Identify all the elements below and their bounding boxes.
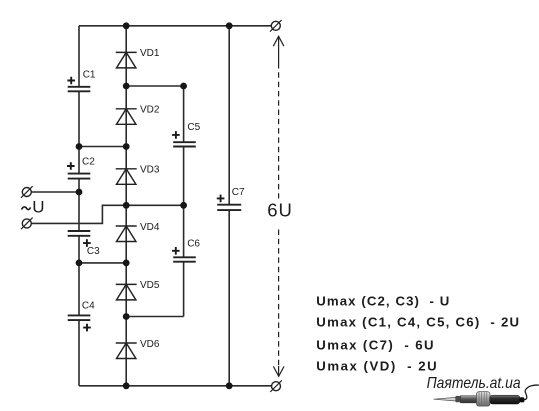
node input top bbox=[76, 189, 83, 196]
plus C2 bbox=[67, 162, 75, 170]
label 6U output bbox=[263, 199, 295, 220]
wire C7 column bbox=[228, 26, 230, 386]
svg-text:C1: C1 bbox=[83, 70, 96, 81]
plus C6 bbox=[172, 247, 180, 255]
arrow up bbox=[273, 36, 284, 46]
handle bbox=[490, 395, 520, 404]
capacitor C4 bbox=[68, 315, 91, 320]
tip holder bbox=[455, 396, 461, 402]
wire diode column bbox=[125, 26, 127, 386]
node VD1-VD2 bbox=[123, 83, 130, 90]
svg-text:C2: C2 bbox=[82, 156, 95, 167]
node C3-C4 bbox=[76, 260, 83, 267]
wire top bus bbox=[79, 25, 271, 27]
svg-text:Umax (C7) - 6U: Umax (C7) - 6U bbox=[316, 338, 435, 353]
capacitor C1 bbox=[68, 87, 91, 92]
wire VD5-VD6 to C6 bottom bbox=[126, 316, 183, 318]
svg-text:Umax (C2, C3) - U: Umax (C2, C3) - U bbox=[316, 294, 450, 309]
svg-text:C6: C6 bbox=[187, 239, 200, 250]
diode VD1 bbox=[116, 52, 137, 68]
wire VD3-VD4 to C6 bbox=[126, 204, 183, 206]
wire mid column C5 C6 bbox=[183, 86, 185, 317]
capacitor C5 bbox=[173, 142, 196, 146]
dimension line 6U dashed bbox=[273, 36, 284, 376]
svg-text:6U: 6U bbox=[267, 199, 292, 220]
node VD5-VD6 bbox=[123, 313, 130, 320]
capacitor C2 bbox=[68, 174, 91, 179]
capacitor C7 bbox=[217, 205, 241, 210]
terminal output bottom bbox=[270, 380, 282, 392]
node C2 top bbox=[76, 143, 83, 150]
node VD2-VD3 bbox=[123, 143, 130, 150]
svg-text:VD3: VD3 bbox=[140, 165, 160, 176]
node top bus / C7 bbox=[226, 22, 233, 29]
terminal output top bbox=[270, 20, 282, 32]
plus C7 bbox=[217, 195, 225, 203]
tip bbox=[434, 397, 456, 401]
capacitor C6 bbox=[173, 257, 196, 261]
watermark soldering iron bbox=[434, 385, 539, 406]
wire bottom bus bbox=[79, 385, 271, 387]
plus C3 bbox=[83, 239, 91, 247]
barrel bbox=[461, 396, 478, 403]
svg-text:VD4: VD4 bbox=[140, 222, 160, 233]
svg-text:U: U bbox=[32, 198, 44, 217]
node C5 top bbox=[180, 83, 187, 90]
terminal input bottom bbox=[21, 218, 33, 230]
capacitor C3 bbox=[68, 231, 91, 236]
diode VD6 bbox=[116, 343, 137, 359]
svg-text:Umax (VD) - 2U: Umax (VD) - 2U bbox=[316, 358, 438, 373]
node VD3-VD4 bbox=[123, 202, 130, 209]
svg-text:Паятель.at.ua: Паятель.at.ua bbox=[427, 375, 521, 392]
cord bbox=[524, 385, 539, 400]
wire VD1-VD2 to C5 bbox=[126, 85, 183, 87]
wire input bottom terminal stepped bbox=[31, 205, 126, 223]
svg-text:VD5: VD5 bbox=[140, 280, 160, 291]
wire VD4-VD5 to C3 bbox=[79, 262, 126, 264]
node bottom bus / C7 bbox=[226, 382, 233, 389]
label ~U input bbox=[22, 207, 31, 210]
node VD4-VD5 bbox=[123, 260, 130, 267]
plus C4 bbox=[83, 324, 91, 332]
svg-text:C7: C7 bbox=[232, 187, 245, 198]
diode VD3 bbox=[116, 169, 137, 185]
svg-text:C4: C4 bbox=[82, 301, 95, 312]
handle nub bbox=[519, 397, 524, 402]
svg-text:Umax (C1, C4, C5, C6) - 2U: Umax (C1, C4, C5, C6) - 2U bbox=[316, 315, 520, 330]
svg-text:C5: C5 bbox=[187, 122, 200, 133]
svg-text:VD2: VD2 bbox=[140, 105, 160, 116]
diode VD2 bbox=[116, 109, 137, 125]
node bottom bus / diode column bbox=[123, 382, 130, 389]
svg-text:VD1: VD1 bbox=[140, 48, 160, 59]
wire VD2-VD3 to C2 bbox=[79, 146, 126, 148]
wire left column bbox=[78, 26, 80, 386]
plus C5 bbox=[172, 131, 180, 139]
terminal input top bbox=[21, 186, 33, 198]
arrow down bbox=[273, 366, 284, 376]
svg-text:VD6: VD6 bbox=[140, 339, 160, 350]
collar ribbed bbox=[476, 392, 490, 406]
node C5-C6 bbox=[180, 202, 187, 209]
diode VD5 bbox=[116, 284, 137, 300]
plus C1 bbox=[67, 77, 75, 85]
wire input top terminal bbox=[31, 191, 79, 193]
node top bus / diode column bbox=[123, 22, 130, 29]
diode VD4 bbox=[116, 226, 137, 242]
svg-text:C3: C3 bbox=[87, 246, 100, 257]
